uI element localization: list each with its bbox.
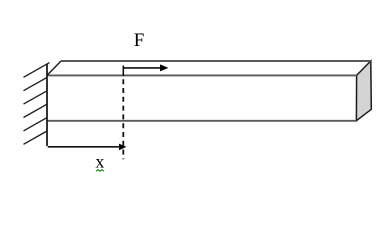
- svg-text:x: x: [95, 152, 104, 172]
- svg-text:F: F: [134, 30, 145, 51]
